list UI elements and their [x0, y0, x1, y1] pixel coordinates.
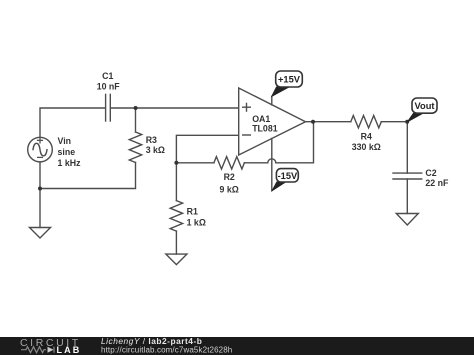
svg-text:10 nF: 10 nF — [97, 82, 121, 92]
svg-text:1 kΩ: 1 kΩ — [187, 218, 206, 228]
svg-text:LAB: LAB — [57, 345, 82, 355]
svg-text:sine: sine — [58, 147, 76, 157]
svg-text:C1: C1 — [102, 71, 113, 81]
svg-text:C2: C2 — [425, 168, 436, 178]
svg-text:22 nF: 22 nF — [425, 178, 449, 188]
svg-text:http://circuitlab.com/c7wa5k2t: http://circuitlab.com/c7wa5k2t2628h — [101, 345, 232, 354]
svg-text:TL081: TL081 — [252, 123, 278, 133]
svg-text:R3: R3 — [146, 135, 157, 145]
svg-text:LichengY / lab2-part4-b: LichengY / lab2-part4-b — [101, 336, 202, 346]
svg-text:R2: R2 — [224, 172, 235, 182]
svg-text:1 kHz: 1 kHz — [58, 158, 82, 168]
svg-text:R4: R4 — [361, 132, 372, 142]
svg-text:9 kΩ: 9 kΩ — [220, 184, 239, 194]
svg-text:-15V: -15V — [278, 171, 298, 181]
svg-text:OA1: OA1 — [252, 114, 270, 124]
svg-text:+15V: +15V — [278, 75, 301, 85]
svg-text:3 kΩ: 3 kΩ — [146, 145, 165, 155]
svg-text:R1: R1 — [187, 207, 198, 217]
svg-text:330 kΩ: 330 kΩ — [352, 142, 381, 152]
svg-text:Vin: Vin — [58, 136, 72, 146]
svg-text:Vout: Vout — [415, 101, 435, 111]
